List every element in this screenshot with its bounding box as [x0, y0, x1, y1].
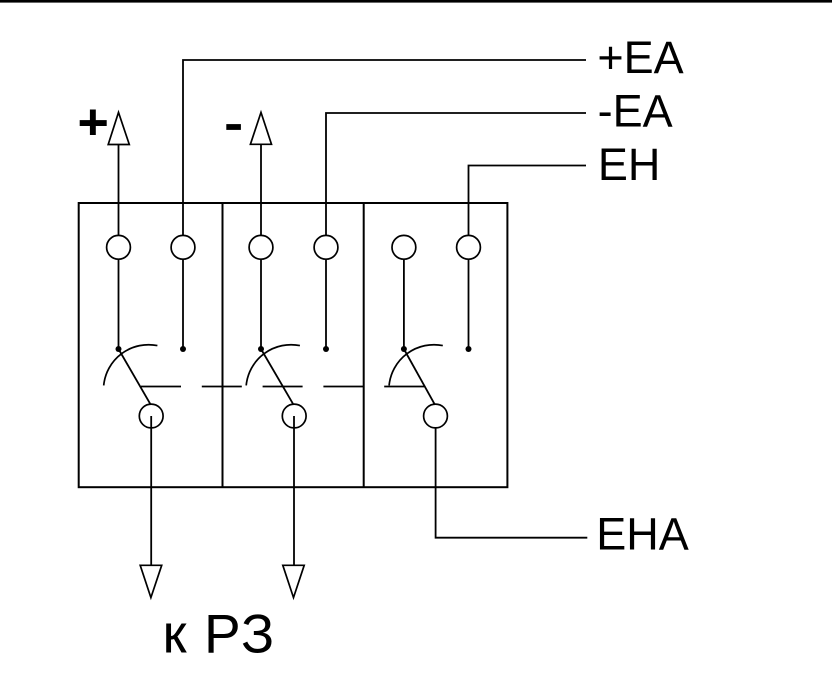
wire terminal1 to contact dot1	[118, 247, 120, 349]
wire terminal6 to contact dot6	[468, 247, 470, 349]
wire net -EA	[326, 113, 586, 247]
wire terminal3 to contact dot3	[260, 247, 262, 349]
switch blade section 3	[404, 349, 435, 404]
svg-text:-ЕА: -ЕА	[598, 86, 673, 137]
svg-text:ЕНА: ЕНА	[596, 509, 689, 560]
section divider 2-3	[363, 203, 365, 487]
arrow symbol + source (up triangle)	[108, 112, 129, 144]
arrow to к РЗ (down triangle, section 1)	[140, 565, 162, 597]
switch enclosure box	[79, 203, 508, 487]
svg-text:ЕН: ЕН	[598, 139, 661, 190]
terminal circle 6	[457, 235, 481, 259]
contact dot 1	[116, 346, 122, 352]
common contact circle section 2	[282, 404, 306, 428]
terminal circle 3	[249, 235, 273, 259]
wire stem of + source arrow	[118, 145, 120, 248]
contact dot 2	[180, 346, 186, 352]
wire terminal5 to contact dot5	[403, 247, 405, 349]
wire section2 output to к РЗ	[293, 416, 295, 565]
wire net EHA (from bottom contact of section 3)	[436, 416, 588, 538]
common contact circle section 1	[139, 404, 163, 428]
svg-text:РЗ: РЗ	[204, 602, 276, 664]
switch travel arc section 2	[246, 345, 300, 386]
common contact circle section 3	[424, 404, 448, 428]
wire stem of - source arrow	[260, 144, 262, 247]
switch travel arc section 3	[389, 345, 443, 386]
arrow symbol - source (up triangle)	[250, 112, 271, 144]
terminal circle 1	[107, 235, 131, 259]
switch blade section 2	[261, 349, 293, 404]
section divider 1-2	[222, 203, 224, 487]
contact dot 5	[401, 346, 407, 352]
polarity symbol +	[80, 110, 107, 136]
wire terminal4 to contact dot4	[325, 247, 327, 349]
contact dot 3	[258, 346, 264, 352]
contact dot 4	[323, 346, 329, 352]
wire section1 output to к РЗ	[150, 416, 152, 565]
mechanical coupling dashed link	[141, 386, 424, 388]
terminal circle 4	[314, 235, 338, 259]
polarity symbol -	[226, 124, 241, 130]
wire net EH	[469, 166, 587, 248]
wire net +EA (top horizontal to vertical into terminal)	[183, 60, 586, 247]
terminal circle 5	[392, 235, 416, 259]
svg-text:+ЕА: +ЕА	[597, 32, 683, 83]
switch travel arc section 1	[104, 345, 158, 386]
terminal circle 2	[171, 235, 195, 259]
switch blade section 1	[119, 349, 151, 404]
wire terminal2 to contact dot2	[182, 247, 184, 349]
svg-text:к: к	[163, 602, 188, 664]
arrow to к РЗ (down triangle, section 2)	[283, 565, 304, 597]
contact dot 6	[466, 346, 472, 352]
